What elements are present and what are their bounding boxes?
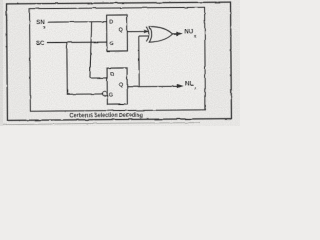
wire U1 Q output to gate bbox=[127, 30, 148, 32]
xor gate U3 body bbox=[149, 26, 173, 42]
xor gate U3 input arc bbox=[146, 27, 149, 42]
paper background bbox=[0, 0, 240, 126]
wire SC drop to lower G bubble bbox=[67, 42, 103, 94]
inner frame bbox=[30, 7, 206, 111]
latch U2 (lower) bbox=[107, 68, 127, 104]
page edge artifact line bbox=[0, 123, 200, 125]
outer frame bbox=[7, 2, 232, 120]
arrowhead NU bbox=[176, 32, 183, 36]
wire gate lower input bbox=[139, 35, 149, 37]
wire SN drop to lower D bbox=[89, 22, 107, 78]
latch U1 (upper) bbox=[107, 15, 128, 51]
film grain bbox=[0, 0, 240, 126]
wire SC horizontal bbox=[47, 41, 107, 43]
wire gate output bbox=[173, 33, 177, 35]
left page shading bbox=[0, 0, 3, 126]
arrowhead into gate bbox=[144, 29, 150, 33]
arrowhead NL bbox=[177, 84, 184, 88]
U2 G inversion bubble bbox=[103, 92, 107, 96]
wire SN horizontal bbox=[48, 21, 107, 23]
wire U2 Q output NL line bbox=[127, 85, 177, 87]
wire vertical joining NL line bbox=[138, 36, 140, 86]
